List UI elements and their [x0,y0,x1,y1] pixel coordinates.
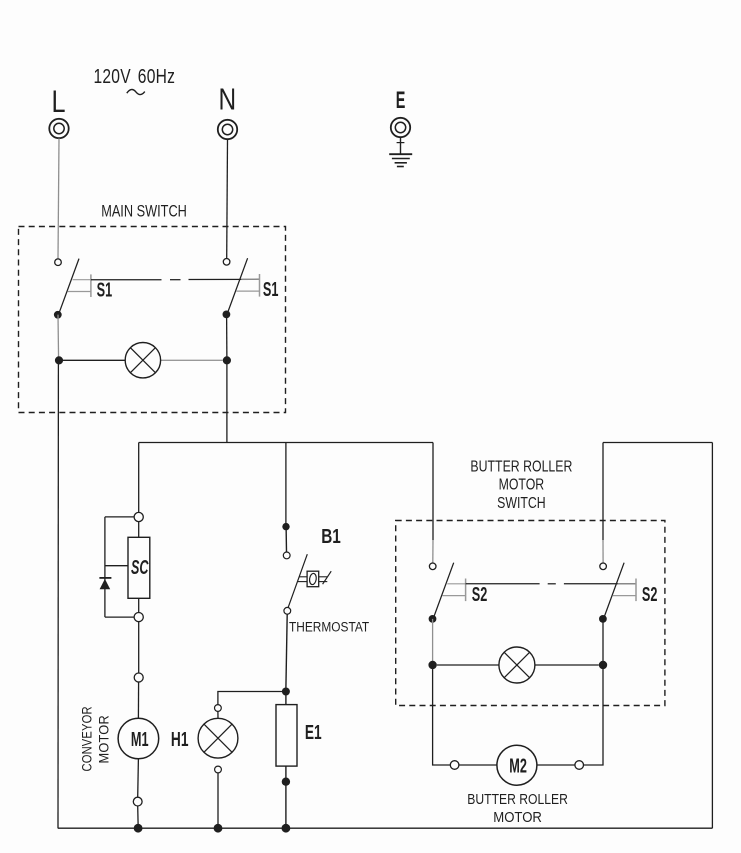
junction dot bus E1 [282,824,291,833]
wire S2 left pole to lamp row [432,619,434,665]
switch S1 pole: bottom junction dot [54,311,62,319]
wire bus to thermostat [285,443,287,525]
switch S2 pole: actuator bar [635,579,637,602]
M2 left terminal circle [450,761,459,770]
svg-text:CONVEYOR: CONVEYOR [79,706,94,771]
svg-text:120V: 120V [94,65,131,87]
switch S2 pole: blade [604,563,625,619]
wire S2 lamp left [437,664,499,666]
terminal N outer circle [218,120,237,139]
wire bus to S2 right pole [602,443,604,541]
junction dot lamp row left [55,356,63,364]
wire SC box to bottom circle [138,598,140,612]
svg-text:H1: H1 [171,727,189,750]
wire M2 right terminal to motor [537,764,575,766]
wire thermostat to junction [286,614,287,688]
junction dot bus M1 [134,824,143,833]
svg-text:S2: S2 [642,583,658,606]
M1 bottom terminal circle [133,797,142,806]
indicator lamp H1 [198,718,238,758]
wire M1 to bottom terminal [137,759,140,797]
SC controller box [128,537,150,598]
thermostat link lines left [299,576,307,578]
switch S1 pole: bottom junction dot [223,311,231,319]
switch S2 pole: actuator bar [465,579,467,602]
junction dot lamp row right [223,356,231,364]
thermostat B1 top contact circle [283,552,290,559]
svg-text:E1: E1 [305,720,322,743]
indicator lamp butter roller switch [499,647,535,683]
terminal E inner circle [395,122,405,132]
wire dot to thermostat contact [285,527,287,552]
svg-text:N: N [219,82,237,116]
wire M2 left terminal to motor [459,764,497,766]
switch S2 pole: bottom junction dot [599,615,607,623]
junction dot S2 lamp row left [428,661,436,669]
motor M2 circle [497,745,537,785]
wire S1 left pole to lamp row [57,315,60,361]
svg-text:S1: S1 [97,278,113,301]
svg-text:M1: M1 [131,728,149,751]
wire H1 terminal to lamp [217,711,219,718]
H1 top terminal circle [215,705,222,712]
thermostat link lines right [319,576,328,578]
indicator lamp main switch [125,343,160,378]
switch S1 pole: link line upper [73,279,91,281]
wire S2 left to M2 terminal [433,665,451,765]
switch S2 pole: top terminal circle [429,563,436,570]
wire terminal to M1 [137,682,139,718]
thermostat release slash [323,571,332,584]
H1 bottom terminal circle [215,766,222,773]
switch S1 pole: top terminal circle [223,259,230,266]
svg-text:E: E [396,87,406,114]
SC bypass branch mid tap wire [105,565,128,567]
SC bypass branch top wire [105,516,134,518]
wire M1 terminal to bottom bus [137,806,139,824]
svg-text:S2: S2 [472,583,488,606]
wire bus to S2 left pole [432,443,434,541]
wire N down to distribution bus [226,360,228,442]
diode D1 triangle [100,579,111,589]
SC bypass branch vertical wire [104,517,106,617]
wire right side return [711,443,713,829]
ground wire tick [397,142,405,144]
thermostat B1 sensor ellipse [309,573,317,585]
diode cathode bar [99,577,111,579]
wire lamp right [161,359,223,361]
thermostat B1 sensor box [307,571,319,587]
wire H1 to bottom bus [217,773,219,824]
svg-text:MOTOR: MOTOR [499,475,545,493]
wire junction to H1 [218,692,286,705]
svg-text:L: L [52,84,66,119]
wire L terminal to main switch [58,138,59,259]
heating element E1 box [276,705,297,767]
wire SC circle to box [138,522,140,538]
switch S1 pole: actuator bar [90,274,92,297]
svg-text:M2: M2 [509,755,527,778]
svg-text:SC: SC [131,556,149,579]
distribution bus left span [139,442,433,444]
wire E terminal to ground [400,137,402,154]
svg-text:MOTOR: MOTOR [96,715,112,763]
terminal L outer circle [49,119,68,138]
wire N terminal to main switch [226,139,229,258]
wire S2 lamp right [535,664,599,666]
wire junction to E1 [285,692,287,705]
wire E1 to bottom bus [285,766,287,824]
switch S1 pole: link line lower [68,291,91,293]
switch S2 pole: link line upper [618,583,636,585]
wire S1 right pole to lamp row [226,314,228,360]
svg-text:MAIN SWITCH: MAIN SWITCH [101,202,187,221]
junction dot thermostat top [282,523,289,530]
switch S1 pole: link line lower [236,290,259,292]
switch S2 pole: link line lower [442,595,465,597]
wire S2 right pole to lamp row [602,619,604,665]
M1 top terminal circle [134,673,143,682]
SC bottom terminal circle [134,613,143,622]
terminal L inner circle [54,123,64,133]
wire lamp left [63,359,125,361]
svg-text:THERMOSTAT: THERMOSTAT [289,619,369,635]
wire L line down left side [57,360,59,828]
junction dot below E1 [282,778,290,786]
svg-text:60Hz: 60Hz [138,65,175,87]
butter roller switch dashed enclosure [396,521,665,706]
junction dot S2 lamp row right [599,661,607,669]
junction dot heater branch [282,688,290,696]
switch S1 pole: link line upper [241,278,259,280]
switch S2 pole: blade [433,563,454,619]
switch S1 pole: blade [227,258,248,314]
switch S2 pole: bottom junction dot [429,615,437,623]
motor M1 circle [118,718,159,759]
switch S2 pole: link line upper [447,583,465,585]
svg-text:MOTOR: MOTOR [493,810,542,826]
main switch dashed enclosure [19,227,286,413]
M2 right terminal circle [575,761,584,770]
wire S2 right to M2 terminal [584,665,604,765]
wire SC to M1 terminal [138,622,140,673]
ground symbol [389,154,412,166]
svg-text:B1: B1 [321,525,341,548]
AC tilde symbol [127,90,145,95]
svg-text:S1: S1 [263,278,279,301]
svg-text:BUTTER ROLLER: BUTTER ROLLER [470,457,572,475]
switch S1 pole: top terminal circle [55,259,62,266]
distribution bus right span [603,442,712,444]
switch S1 mechanical linkage dashes [91,278,260,280]
switch S2 mechanical linkage dashes [466,583,636,585]
terminal E outer circle [391,118,410,137]
SC top terminal circle [134,512,143,521]
svg-text:SWITCH: SWITCH [497,493,546,511]
wire bus to SC [138,443,140,513]
switch S1 pole: blade [58,259,79,315]
junction dot bus H1 [214,824,223,833]
SC bypass branch bottom wire [105,616,134,618]
switch S2 pole: link line lower [613,595,636,597]
switch S1 pole: actuator bar [259,274,261,297]
terminal N inner circle [222,124,232,134]
bottom return bus wire [58,827,713,829]
thermostat B1 blade [288,554,307,607]
switch S2 pole: top terminal circle [600,563,607,570]
svg-text:BUTTER ROLLER: BUTTER ROLLER [467,791,568,807]
thermostat B1 bottom contact circle [284,607,291,614]
